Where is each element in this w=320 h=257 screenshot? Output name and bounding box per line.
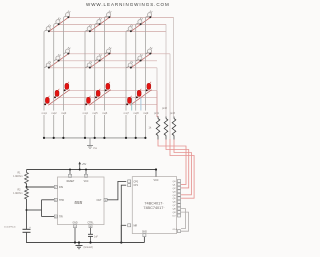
wire column 7 bbox=[125, 31, 127, 137]
wire layer3 diagonal col-group3 bbox=[130, 90, 152, 106]
wire layer1 row3 bbox=[68, 16, 173, 18]
node label mq5 bbox=[91, 111, 98, 116]
wire +5V rail bbox=[27, 169, 157, 171]
wire layer1 row1 bbox=[49, 30, 166, 32]
wire layer3 row1 bbox=[49, 104, 157, 106]
ground bus Vss bbox=[87, 138, 98, 150]
wire red net4 resistor to U2 Q pin bbox=[170, 139, 194, 198]
power +5V arrow bbox=[78, 162, 86, 171]
LED9 gray bbox=[146, 11, 153, 19]
LED5 gray bbox=[95, 18, 102, 26]
wire column 2 bbox=[53, 24, 55, 137]
svg-text:DIS: DIS bbox=[59, 186, 63, 189]
node label mq8 bbox=[132, 111, 139, 116]
U2 pin Q8 bbox=[173, 207, 181, 211]
node bus junction 6 bbox=[103, 137, 105, 139]
wire CP1 to ground bus bbox=[121, 185, 126, 242]
LED2 gray bbox=[54, 18, 61, 26]
capacitor C2 1nF on CTRL bbox=[88, 228, 99, 243]
wire layer3 diagonal col-group2 bbox=[89, 90, 111, 106]
svg-text:TRI: TRI bbox=[59, 216, 63, 219]
LED16 gray bbox=[126, 61, 133, 69]
wire layer2 row3 bbox=[68, 53, 170, 55]
wire tinted column segment B bbox=[140, 98, 142, 111]
U1 pin 2 TRI bbox=[54, 215, 63, 219]
svg-text:VCC: VCC bbox=[84, 181, 89, 183]
wire red net3 resistor to U2 Q pin bbox=[174, 140, 191, 195]
svg-text:GND: GND bbox=[72, 222, 77, 224]
node bus junction 1 bbox=[43, 137, 45, 139]
svg-text:mq3: mq3 bbox=[61, 111, 67, 115]
U2 pin Q1 bbox=[173, 183, 181, 187]
svg-text:+5V: +5V bbox=[82, 162, 87, 166]
svg-text:WWW.LEARNINGWINGS.COM: WWW.LEARNINGWINGS.COM bbox=[86, 2, 170, 7]
wire tinted column segment A bbox=[131, 98, 133, 111]
LED4 gray bbox=[85, 25, 92, 33]
U2 pin Q3 bbox=[173, 190, 181, 194]
U1 pin 8 VCC bbox=[84, 169, 89, 184]
LED14 gray bbox=[95, 54, 102, 62]
LED27 red lit bbox=[146, 82, 151, 91]
wire column 3 bbox=[62, 17, 64, 137]
wire column 8 bbox=[135, 24, 137, 137]
svg-text:mq7: mq7 bbox=[124, 111, 130, 115]
svg-text:pnl1: pnl1 bbox=[154, 112, 159, 115]
wire column 9 bbox=[144, 17, 146, 137]
wire layer2 row1 bbox=[49, 67, 157, 69]
wire C1 bottom to ground bus bbox=[27, 232, 80, 242]
svg-text:pnl2: pnl2 bbox=[162, 107, 167, 110]
wire layer2 diagonal col-group3 bbox=[130, 53, 152, 69]
wire R2 bottom / THR TRIG tree bbox=[26, 199, 55, 229]
LED8 gray bbox=[136, 18, 143, 26]
LED7 gray bbox=[126, 25, 133, 33]
LED10 gray bbox=[44, 61, 51, 69]
node label mq1 bbox=[41, 111, 48, 116]
wire column 4 bbox=[84, 31, 86, 137]
U2 CO bottom pin tag bbox=[173, 229, 181, 233]
resistor R2 1.0kOhm bbox=[13, 187, 28, 199]
U1 pin 5 CTRL bbox=[88, 222, 95, 228]
wire column 6 bbox=[103, 17, 105, 137]
wire layer1 net to R6 bbox=[165, 24, 167, 116]
U2 VCC pin bbox=[153, 168, 158, 182]
node bus junction 5 bbox=[94, 137, 96, 139]
node bus junction 4 bbox=[84, 137, 86, 139]
U1 pin 3 OUT bbox=[96, 198, 107, 202]
U2 pin Q6 bbox=[173, 200, 181, 204]
svg-text:CP1: CP1 bbox=[134, 185, 139, 187]
LED15 gray bbox=[105, 47, 112, 55]
LED3 gray bbox=[64, 11, 71, 19]
wire layer2 net long drop to U2 bbox=[169, 54, 171, 139]
capacitor C1 10uF bbox=[4, 226, 31, 232]
wire layer2 row2 bbox=[59, 60, 157, 62]
LED13 gray bbox=[85, 61, 92, 69]
resistor R1 1.0kOhm bbox=[13, 170, 28, 184]
svg-text:THR: THR bbox=[59, 199, 64, 202]
LED24 red lit bbox=[105, 82, 110, 91]
U2 pin CO bbox=[172, 214, 180, 218]
U2 pin Q4 bbox=[173, 193, 181, 197]
wire column 5 bbox=[94, 24, 96, 137]
LED19 red lit bbox=[44, 96, 49, 105]
svg-text:CTRL: CTRL bbox=[88, 222, 95, 224]
U2 pin Q9 bbox=[173, 211, 181, 215]
svg-text:mq1: mq1 bbox=[42, 111, 48, 115]
wire column ground bus bbox=[44, 137, 145, 139]
wire layer3 row3 bbox=[68, 90, 157, 92]
node bus junction 3 bbox=[62, 137, 64, 139]
svg-text:mq9: mq9 bbox=[143, 111, 149, 115]
ground symbol bbox=[76, 241, 93, 249]
svg-text:CO: CO bbox=[172, 216, 176, 218]
node website title bbox=[86, 2, 170, 7]
LED17 gray bbox=[136, 54, 143, 62]
svg-text:CP0: CP0 bbox=[134, 181, 139, 183]
resistor R6 pnl2 bbox=[162, 107, 168, 140]
svg-text:10.0uF/5um: 10.0uF/5um bbox=[4, 226, 16, 228]
wire layer2 diagonal col-group2 bbox=[89, 53, 111, 69]
LED20 red lit bbox=[54, 89, 59, 98]
svg-text:pnl3: pnl3 bbox=[170, 112, 175, 115]
U1 pin 7 DIS bbox=[54, 186, 63, 190]
node label mq9 bbox=[142, 111, 149, 116]
wire layer1 net to R7 bbox=[173, 17, 175, 116]
node label mq6 bbox=[101, 111, 108, 116]
U2 pin CP0 bbox=[128, 180, 139, 184]
svg-text:1nF: 1nF bbox=[94, 236, 99, 238]
svg-text:GND: GND bbox=[142, 232, 147, 234]
node label mq7 bbox=[123, 111, 130, 116]
svg-text:555: 555 bbox=[74, 200, 82, 206]
LED6 gray bbox=[105, 11, 112, 19]
node bus junction 7 bbox=[125, 137, 127, 139]
wire red net1 resistor to U2 Q pin bbox=[158, 140, 186, 185]
node label mq2 bbox=[50, 111, 57, 116]
node label mq4 bbox=[82, 111, 89, 116]
U2 GND pin bbox=[142, 232, 147, 243]
LED26 red lit bbox=[136, 89, 141, 98]
wire OUT to CP0 bbox=[107, 181, 126, 199]
svg-text:mq5: mq5 bbox=[92, 111, 98, 115]
U2 pin CP1 bbox=[128, 184, 139, 188]
wire layer2 diagonal col-group1 bbox=[48, 53, 69, 69]
wire layer3 row2 bbox=[59, 97, 157, 99]
wire Q9 loop bbox=[181, 212, 189, 231]
op-amp U1 555 timer body bbox=[58, 177, 105, 225]
wire layer1 row2 bbox=[59, 23, 166, 25]
svg-text:MR: MR bbox=[134, 225, 138, 227]
svg-text:mq6: mq6 bbox=[102, 111, 108, 115]
LED21 red lit bbox=[64, 82, 69, 91]
svg-text:mq8: mq8 bbox=[133, 111, 139, 115]
resistor R7 pnl3 bbox=[170, 112, 176, 140]
svg-text:1.0kOhm: 1.0kOhm bbox=[13, 176, 22, 178]
svg-text:mq4: mq4 bbox=[83, 111, 89, 115]
wire layer1 diagonal col-group1 bbox=[48, 16, 69, 32]
node bus junction 8 bbox=[135, 137, 137, 139]
LED11 gray bbox=[54, 54, 61, 62]
svg-text:(Ground): (Ground) bbox=[84, 246, 93, 249]
wire ground bus bbox=[27, 241, 145, 243]
svg-text:74BC74017·: 74BC74017· bbox=[143, 206, 164, 210]
wire Q8 loop bbox=[181, 209, 186, 229]
node bus junction 2 bbox=[53, 137, 55, 139]
U2 pin Q0 bbox=[173, 180, 181, 184]
svg-text:mq2: mq2 bbox=[51, 111, 57, 115]
svg-text:VCC: VCC bbox=[153, 179, 158, 182]
wire R1 bottom to DIS node bbox=[26, 184, 55, 189]
node label mq3 bbox=[60, 111, 67, 116]
svg-text:1.0kOhm: 1.0kOhm bbox=[13, 193, 22, 195]
U2 pin MR bbox=[128, 224, 138, 228]
U1 pin 1 GND bbox=[72, 222, 77, 228]
U1 pin 6 THR bbox=[54, 198, 64, 202]
wire layer3 net to R5 bbox=[157, 68, 158, 118]
LED25 red lit bbox=[126, 96, 131, 105]
svg-text:RESET: RESET bbox=[67, 181, 75, 183]
svg-text:74BC4017·: 74BC4017· bbox=[144, 201, 163, 205]
wire layer3 diagonal col-group1 bbox=[48, 90, 69, 106]
svg-text:OUT: OUT bbox=[96, 199, 102, 202]
U2 pin Q2 bbox=[173, 186, 181, 190]
resistor R5 pnl1 bbox=[154, 112, 160, 140]
wire layer1 diagonal col-group2 bbox=[89, 16, 111, 32]
LED18 gray bbox=[146, 47, 153, 55]
node bus junction 9 bbox=[144, 137, 146, 139]
LED22 red lit bbox=[85, 96, 90, 105]
LED23 red lit bbox=[95, 89, 100, 98]
U1 pin 4 RESET bbox=[67, 169, 75, 184]
IC U2 74HC4017 body bbox=[132, 177, 176, 234]
wire red net2 resistor to U2 Q pin bbox=[166, 140, 189, 188]
U2 pin Q7 bbox=[173, 204, 181, 208]
wire layer1 diagonal col-group3 bbox=[130, 16, 152, 32]
wire column 1 bbox=[43, 31, 45, 137]
resistor value 1k bbox=[149, 126, 152, 130]
wire GND pin to bus bbox=[74, 228, 76, 243]
LED1 gray bbox=[44, 25, 51, 33]
LED12 gray bbox=[64, 47, 71, 55]
U2 pin Q5 bbox=[173, 197, 181, 200]
wire MR to ground bus bbox=[121, 225, 126, 242]
